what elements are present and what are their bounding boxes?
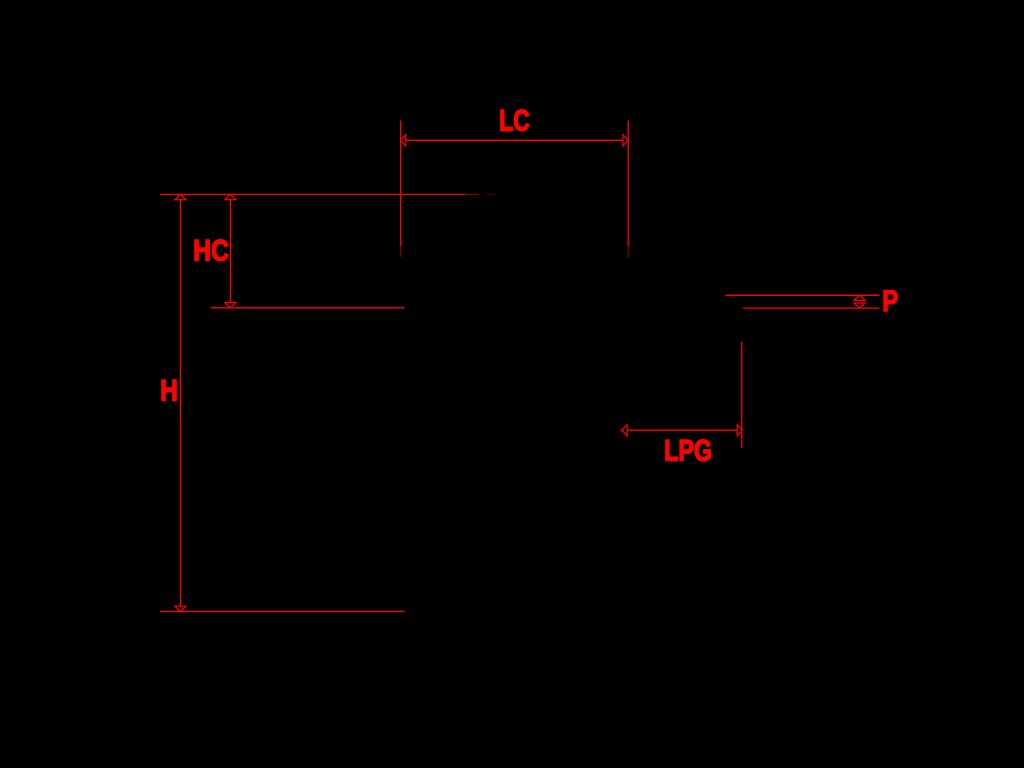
label H xyxy=(160,375,178,408)
arrowhead HC top xyxy=(225,194,236,199)
label HC xyxy=(193,235,229,268)
arrowhead LC left xyxy=(401,135,406,146)
label LPG xyxy=(664,435,712,468)
arrowhead LC right xyxy=(623,135,628,146)
wire HC bottom object line xyxy=(211,307,405,309)
arrowhead H top xyxy=(175,194,186,199)
dimension HC line xyxy=(229,200,231,303)
wire LC left extension line xyxy=(400,120,402,257)
wire bottom object line xyxy=(160,611,405,613)
label P xyxy=(882,285,898,318)
wire LPG right extension line xyxy=(741,342,743,448)
arrowhead LPG left xyxy=(622,425,627,436)
arrowhead LPG right xyxy=(737,425,742,436)
dimension H line xyxy=(179,200,181,607)
wire top object line faded tail xyxy=(465,193,495,195)
svg-text:P: P xyxy=(882,285,898,318)
arrowhead P down xyxy=(854,303,865,308)
wire top object line xyxy=(160,193,465,195)
arrowhead HC bottom xyxy=(225,303,236,308)
arrowhead H bottom xyxy=(175,606,186,611)
dimension LC line xyxy=(406,139,623,141)
wire LC right extension line xyxy=(627,120,629,258)
wire P upper line xyxy=(725,294,879,296)
node LPG left extension stub xyxy=(620,429,622,431)
label LC xyxy=(499,105,530,138)
arrowhead P up xyxy=(854,295,865,300)
svg-text:H: H xyxy=(160,375,178,408)
dimension LPG line xyxy=(627,429,737,431)
svg-text:LPG: LPG xyxy=(664,435,712,468)
svg-text:LC: LC xyxy=(499,105,530,138)
wire P lower line xyxy=(743,307,880,309)
svg-text:HC: HC xyxy=(193,235,229,268)
